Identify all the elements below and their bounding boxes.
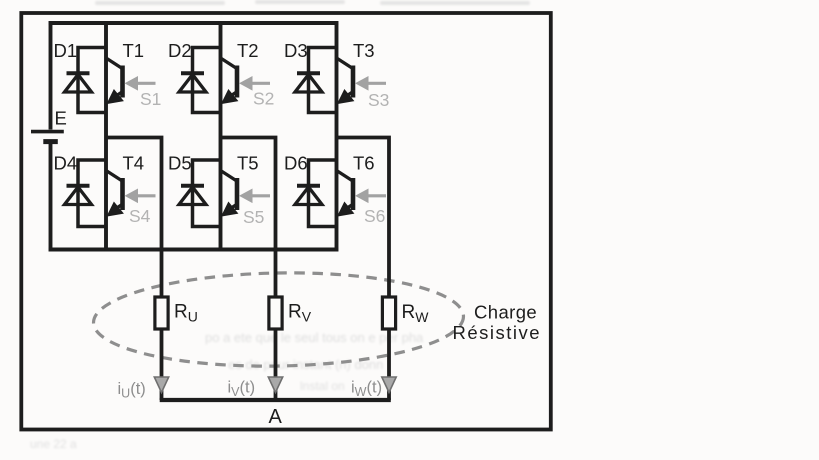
wire: diode branch of D6 [309, 160, 337, 227]
current arrow iW(t) [382, 377, 396, 393]
figure border frame [21, 13, 551, 430]
svg-text:D2: D2 [168, 40, 192, 61]
svg-text:lnstal on: lnstal on [300, 379, 345, 393]
wire: bottom DC bus [49, 248, 338, 252]
svg-text:Charge: Charge [474, 302, 537, 323]
svg-text:T2: T2 [237, 40, 259, 61]
svg-text:Résistive: Résistive [453, 322, 542, 343]
svg-text:une 22 a: une 22 a [30, 437, 77, 451]
svg-text:D4: D4 [54, 152, 78, 173]
svg-text:S2: S2 [253, 89, 274, 109]
svg-text:T1: T1 [123, 40, 145, 61]
svg-text:S4: S4 [129, 206, 151, 226]
battery source E [31, 132, 64, 142]
transistor T4 [107, 171, 123, 216]
wire: bridge leg 3 vertical [335, 21, 339, 252]
diode D6 [295, 186, 322, 205]
svg-text:D1: D1 [54, 40, 78, 61]
wire: left rail upper (E+) [49, 21, 53, 130]
wire: diode branch of D2 [193, 48, 221, 113]
wire: bridge leg 2 vertical [219, 21, 223, 252]
wire: left rail lower (E-) [49, 144, 53, 252]
current arrow iV(t) [268, 377, 282, 393]
wire: phase U output from leg midpoint [106, 138, 162, 401]
svg-text:po a ete que le seul tous on e: po a ete que le seul tous on e per pha [205, 330, 424, 345]
gray switch arrow S4 [126, 189, 156, 202]
svg-text:E: E [55, 108, 67, 129]
dashed ellipse: Charge Resistive boundary [93, 270, 465, 369]
transistor T3 [337, 59, 353, 104]
resistor RU [155, 297, 168, 329]
svg-text:D3: D3 [284, 40, 308, 61]
diode D1 [65, 73, 92, 92]
svg-text:S3: S3 [368, 90, 389, 110]
diode D3 [295, 73, 322, 92]
diode D2 [179, 73, 206, 92]
gray switch arrow S1 [126, 77, 156, 90]
svg-text:A: A [269, 406, 283, 428]
wire: diode branch of D4 [78, 160, 106, 227]
resistor RV [269, 297, 282, 329]
gray switch arrow S6 [356, 189, 386, 202]
svg-text:D6: D6 [284, 152, 308, 173]
gray switch arrow S2 [240, 77, 270, 90]
resistor RW [382, 297, 395, 329]
wire: diode branch of D3 [309, 48, 337, 113]
wire: bridge leg 1 vertical [104, 21, 108, 252]
transistor T1 [107, 59, 123, 104]
transistor T5 [221, 171, 237, 216]
transistor T6 [337, 171, 353, 216]
svg-text:D5: D5 [168, 152, 192, 173]
svg-text:S1: S1 [140, 89, 161, 109]
gray switch arrow S5 [240, 189, 270, 202]
wire: top DC bus [49, 21, 338, 25]
transistor T2 [221, 59, 237, 104]
svg-text:T6: T6 [353, 152, 375, 173]
gray switch arrow S3 [356, 77, 386, 90]
current arrow iU(t) [154, 377, 168, 393]
svg-text:T4: T4 [123, 152, 145, 173]
diode D4 [65, 186, 92, 205]
diode D5 [179, 186, 206, 205]
svg-text:S5: S5 [243, 207, 264, 227]
wire: load neutral bus [160, 398, 391, 402]
svg-text:S6: S6 [364, 206, 385, 226]
wire: phase W output from leg midpoint [337, 138, 390, 401]
wire: diode branch of D1 [78, 48, 106, 113]
wire: phase V output from leg midpoint [221, 138, 276, 401]
svg-text:T5: T5 [237, 152, 259, 173]
svg-text:T3: T3 [353, 40, 375, 61]
wire: diode branch of D5 [193, 160, 221, 227]
